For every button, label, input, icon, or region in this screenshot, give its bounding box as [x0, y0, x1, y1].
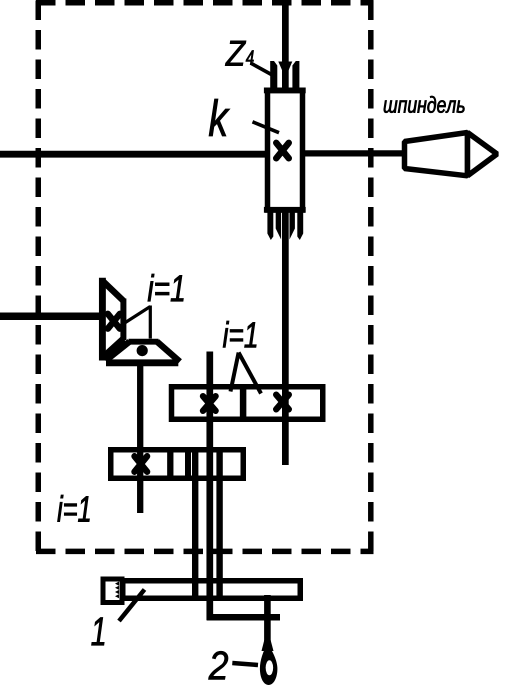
bearing dot on horizontal bevel cone [137, 345, 148, 356]
lower spline coupling: outer left wall [267, 213, 273, 241]
divider 2 of lower gear box [185, 447, 191, 481]
spline coupling Z4 right prong [292, 61, 299, 90]
lower spline coupling: outer right wall [297, 213, 303, 241]
label i=1 (bevel pair) [148, 274, 184, 301]
label k [209, 99, 230, 136]
bevel gear, horizontal cone (on vertical shaft) [106, 342, 180, 363]
handle ring (item 2) [260, 644, 278, 685]
label 2 leader [232, 663, 258, 665]
divider 1 of lower gear box [167, 447, 173, 481]
Z4 leader [252, 64, 276, 77]
spline coupling Z4 (top fork) left prong [270, 61, 277, 90]
label шпиндель [384, 96, 465, 113]
label 2 [209, 651, 229, 679]
label i=1 (lower left, inside frame) [58, 495, 90, 522]
spindle tip arrow [468, 133, 498, 176]
bottom flange cap of k [264, 207, 306, 213]
top flange cap of k [264, 88, 306, 94]
vertical shaft from bevel gear down through lower gear box [137, 362, 143, 513]
spindle cone body [405, 133, 468, 176]
bevel gear, vertical cone (on horizontal shaft) [102, 278, 123, 361]
sleeve line A (lower box to rack) [192, 449, 198, 598]
main horizontal shaft, left segment [0, 151, 267, 158]
leader lines of bevel i=1 label [116, 307, 150, 329]
lower gear box [111, 450, 244, 479]
vertical shaft from k down through upper gear box [282, 210, 289, 465]
spline wedge right of shaft [289, 62, 293, 71]
knurl teeth inside knob [115, 582, 119, 599]
shaft B (through both gear boxes down to rack link) [206, 352, 213, 621]
leader lines of upper box i=1 label [231, 353, 239, 392]
spindle input shaft (vertical, from top border) [282, 1, 289, 92]
label 1 leader [119, 590, 145, 622]
label 1 [92, 618, 105, 646]
X mark left gear of upper box [203, 396, 216, 411]
X mark gear of lower box [135, 456, 148, 472]
upper gear box (two gears) [172, 387, 323, 420]
gear block housing k (vertical rectangle) [268, 91, 303, 211]
lower spline coupling: inner right prong with flare [290, 213, 295, 240]
knob box at left end of rack [103, 579, 122, 603]
rack bar (item 1) [123, 581, 301, 599]
handle cone (item 2 top) [262, 640, 274, 651]
main horizontal shaft, right segment to spindle [302, 150, 404, 156]
dashed enclosure frame [36, 1, 374, 555]
left input shaft (horizontal) [0, 313, 104, 321]
X mark on bevel gear shaft [108, 314, 120, 329]
X mark right gear of upper box [276, 395, 289, 410]
spline wedge left of shaft [278, 62, 282, 71]
link vertical to handle ring [264, 595, 271, 648]
k leader [253, 122, 280, 133]
lower spline coupling: inner left prong with flare [276, 213, 281, 240]
divider of upper gear box [240, 384, 247, 422]
link from shaft B to handle: horizontal [207, 614, 280, 621]
X mark (fixed gear) inside k [276, 143, 289, 159]
label i=1 (upper gear box) [223, 321, 256, 347]
sleeve line C (lower box to rack) [216, 449, 222, 599]
label Z4 [225, 41, 246, 66]
